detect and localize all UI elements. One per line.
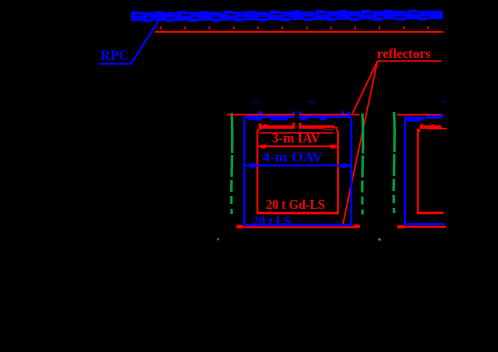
AD1 left green reflector strip — [231, 113, 232, 219]
RPC leader line — [99, 19, 160, 64]
AD1 right foot — [354, 225, 360, 228]
AD2 red top line — [397, 114, 444, 116]
AD1 left foot — [236, 225, 242, 229]
AD1 right green reflector strip — [361, 114, 364, 218]
AD2 blue bottom — [404, 223, 445, 225]
svg-text:reflectors: reflectors — [377, 47, 431, 62]
svg-text:20 t Gd-LS: 20 t Gd-LS — [266, 197, 325, 212]
svg-text:RPC: RPC — [101, 48, 129, 64]
AD1 red IAV right wall — [337, 132, 339, 214]
svg-text:3-m IAV: 3-m IAV — [272, 130, 320, 145]
AD2 red IAV lid — [417, 124, 447, 132]
AD1 red bottom line — [243, 226, 355, 228]
AD2 foot — [397, 225, 405, 228]
reflector leader line B — [343, 61, 378, 224]
AD1 red top line — [227, 114, 360, 116]
AD1 red IAV left wall — [256, 131, 258, 214]
AD2 red IAV bottom — [417, 212, 444, 215]
lid center gap (black) — [295, 113, 299, 115]
reflector leader line A — [353, 61, 378, 114]
AD1 blue bottom — [243, 224, 352, 226]
AD1 blue lid — [243, 111, 350, 120]
stray orange dot — [217, 238, 219, 240]
reflectors underline — [378, 60, 442, 62]
AD1 blue right wall — [350, 117, 352, 225]
red tick marks — [160, 26, 429, 29]
AD1 red IAV bottom — [256, 212, 339, 215]
AD2 blue lid — [404, 114, 444, 122]
svg-text:4-m OAV: 4-m OAV — [262, 150, 323, 165]
RPC modules band — [131, 10, 453, 22]
pool top red line — [155, 31, 444, 33]
AD2 blue wall — [404, 117, 406, 225]
AD2 red IAV wall — [417, 129, 419, 214]
AD1 blue left wall — [243, 117, 245, 225]
navy dashes above AD lids — [253, 101, 447, 103]
svg-text:20 t LS: 20 t LS — [253, 213, 292, 228]
AD1 blue wall top tab — [347, 112, 350, 118]
AD2 green reflector strip — [392, 112, 395, 216]
stray orange dot 2 — [378, 238, 380, 240]
AD2 red bottom line — [405, 226, 446, 228]
4-m OAV dimension arrow — [246, 163, 351, 168]
3-m IAV dimension arrow — [258, 145, 337, 149]
AD1 red IAV lid — [256, 123, 339, 134]
